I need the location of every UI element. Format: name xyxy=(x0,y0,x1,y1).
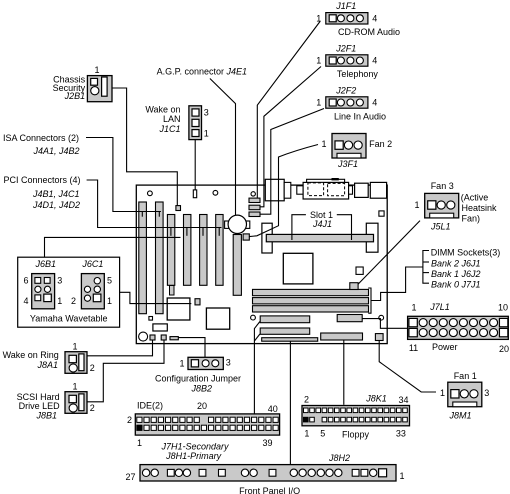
wire DIMM label bracket xyxy=(423,251,429,284)
fan 1 header on board xyxy=(375,334,383,341)
svg-text:LAN: LAN xyxy=(163,114,181,124)
component xyxy=(149,317,153,321)
connector J8B2 configuration jumper xyxy=(188,357,223,369)
wire AGP leader xyxy=(210,79,236,216)
svg-text:6: 6 xyxy=(23,275,28,285)
svg-text:J6B1: J6B1 xyxy=(34,259,56,269)
front panel header on board xyxy=(262,338,318,342)
svg-text:39: 39 xyxy=(262,438,272,448)
wire J6C1 leader xyxy=(104,292,191,303)
connector J6C1 xyxy=(81,274,104,309)
svg-text:Wake on Ring: Wake on Ring xyxy=(3,350,59,360)
svg-text:J8B2: J8B2 xyxy=(190,383,212,393)
component xyxy=(379,211,384,216)
svg-text:1: 1 xyxy=(107,296,112,306)
svg-text:1: 1 xyxy=(321,139,326,149)
svg-text:4: 4 xyxy=(372,56,377,66)
DIMM socket bank 0 J7J1 xyxy=(253,306,369,312)
svg-text:J4B1, J4C1: J4B1, J4C1 xyxy=(32,189,80,199)
ISA slot J4B2 xyxy=(156,202,164,314)
svg-text:1: 1 xyxy=(57,296,62,306)
svg-text:J8H1-Primary: J8H1-Primary xyxy=(165,451,222,461)
svg-text:33: 33 xyxy=(396,428,406,438)
back panel connector xyxy=(297,186,303,194)
telephony header on board xyxy=(249,205,260,210)
IDE secondary header on board xyxy=(260,316,310,323)
svg-text:J4A1, J4B2: J4A1, J4B2 xyxy=(33,146,80,156)
wire DIMM label connector xyxy=(371,267,423,301)
back panel connector xyxy=(284,182,291,198)
DIMM socket bank 2 J6J1 xyxy=(253,289,369,295)
wire fan 3 leader xyxy=(358,221,420,285)
speaker xyxy=(139,332,148,341)
svg-text:PCI Connectors (4): PCI Connectors (4) xyxy=(4,175,81,185)
svg-text:Fan 1: Fan 1 xyxy=(454,371,477,381)
svg-text:27: 27 xyxy=(125,472,135,482)
svg-text:3: 3 xyxy=(484,388,489,398)
svg-text:1: 1 xyxy=(72,382,77,392)
svg-text:5: 5 xyxy=(320,428,325,438)
svg-text:2: 2 xyxy=(127,415,132,425)
svg-text:1: 1 xyxy=(94,65,99,75)
svg-text:Heatsink: Heatsink xyxy=(462,203,498,213)
wire IDE leader xyxy=(254,322,260,415)
svg-text:J8B1: J8B1 xyxy=(35,410,57,420)
component xyxy=(153,324,167,331)
svg-text:2: 2 xyxy=(71,296,76,306)
SCSI LED header on board xyxy=(161,335,166,340)
svg-text:J6C1: J6C1 xyxy=(81,259,103,269)
connector J5L1 Fan 3 xyxy=(425,193,459,218)
svg-text:Configuration Jumper: Configuration Jumper xyxy=(155,373,241,383)
connector J3F1 Fan 2 xyxy=(332,134,366,159)
battery xyxy=(225,221,229,228)
svg-text:3: 3 xyxy=(204,108,209,118)
svg-text:34: 34 xyxy=(398,395,408,405)
svg-text:CD-ROM Audio: CD-ROM Audio xyxy=(338,27,400,37)
svg-text:4: 4 xyxy=(372,98,377,108)
svg-text:IDE(2): IDE(2) xyxy=(137,400,163,410)
IDE primary header on board xyxy=(260,328,310,334)
svg-text:40: 40 xyxy=(268,404,278,414)
svg-text:3: 3 xyxy=(57,275,62,285)
connector J6B1 xyxy=(32,274,55,309)
connector J8B1 SCSI LED xyxy=(65,392,87,414)
connector J8A1 wake on ring xyxy=(65,352,87,374)
PCI slot J4D2 xyxy=(216,215,223,286)
svg-text:Power: Power xyxy=(432,342,458,352)
wire SCSI LED leader xyxy=(87,340,164,402)
wire chassis security leader xyxy=(112,88,177,206)
svg-text:J7H1-Secondary: J7H1-Secondary xyxy=(160,441,229,451)
wire floppy leader xyxy=(343,340,345,405)
svg-text:3: 3 xyxy=(226,357,231,367)
svg-text:J1F1: J1F1 xyxy=(335,1,356,11)
svg-text:20: 20 xyxy=(197,401,207,411)
svg-text:J1C1: J1C1 xyxy=(158,124,180,134)
svg-text:J5L1: J5L1 xyxy=(430,221,451,231)
mounting hole xyxy=(251,315,256,320)
svg-text:4: 4 xyxy=(372,13,377,23)
svg-text:1: 1 xyxy=(316,98,321,108)
power header on board xyxy=(337,315,362,322)
svg-text:J8A1: J8A1 xyxy=(36,360,58,370)
svg-text:20: 20 xyxy=(499,344,509,354)
CD-ROM audio header on board xyxy=(249,198,260,202)
svg-text:J3F1: J3F1 xyxy=(337,159,358,169)
ISA slot J4A1 xyxy=(139,202,147,314)
back panel game port connector xyxy=(370,182,386,198)
wire power leader xyxy=(362,319,407,329)
svg-text:11: 11 xyxy=(409,343,418,353)
Yamaha wavetable box xyxy=(18,257,120,327)
jumper block beside AGP xyxy=(243,234,249,240)
fan 3 header on board xyxy=(350,283,358,290)
svg-text:1: 1 xyxy=(179,359,184,369)
Slot 1 connector J4J1 xyxy=(266,234,373,241)
mounting hole xyxy=(379,315,384,320)
AGP slot J4E1 xyxy=(233,235,241,296)
svg-text:Fan 2: Fan 2 xyxy=(369,139,392,149)
svg-text:Bank 0 J7J1: Bank 0 J7J1 xyxy=(431,279,481,289)
back panel serial connector xyxy=(265,179,284,201)
floppy header on board xyxy=(321,333,363,340)
wire fan 1 leader xyxy=(379,341,436,393)
component xyxy=(195,299,200,305)
svg-text:Yamaha Wavetable: Yamaha Wavetable xyxy=(30,313,108,323)
Slot 1 label bracket xyxy=(292,215,306,240)
svg-text:ISA Connectors (2): ISA Connectors (2) xyxy=(3,133,79,143)
svg-text:J2F1: J2F1 xyxy=(335,43,356,53)
svg-text:1: 1 xyxy=(411,303,416,313)
wire fan 2 leader xyxy=(249,145,318,237)
svg-text:Fan 3: Fan 3 xyxy=(431,181,454,191)
back panel connector xyxy=(349,186,353,194)
mounting hole xyxy=(148,191,153,196)
line-in audio header on board xyxy=(249,212,260,217)
PCI slot J4C1 xyxy=(184,215,191,286)
configuration jumper on board xyxy=(170,337,178,340)
wire telephony leader xyxy=(260,67,321,207)
svg-text:J8H2: J8H2 xyxy=(328,453,350,463)
svg-text:J7L1: J7L1 xyxy=(429,302,450,312)
wire line-in audio leader xyxy=(260,109,324,215)
svg-text:1: 1 xyxy=(316,56,321,66)
svg-text:1: 1 xyxy=(304,428,309,438)
chassis security header on board xyxy=(176,206,181,211)
svg-text:A.G.P. connector J4E1: A.G.P. connector J4E1 xyxy=(157,67,247,77)
PCI slot J4B1 xyxy=(167,215,174,286)
wire PCI leader xyxy=(87,180,222,228)
svg-text:J2F2: J2F2 xyxy=(335,85,356,95)
svg-text:J8K1: J8K1 xyxy=(365,394,387,404)
chip xyxy=(283,253,313,284)
wire wake-on-LAN leader xyxy=(194,140,196,190)
wire Yamaha wavetable leader xyxy=(45,237,181,257)
svg-text:1: 1 xyxy=(414,200,419,210)
svg-text:(Active: (Active xyxy=(461,193,489,203)
connector J2B1 chassis security xyxy=(87,76,112,102)
svg-text:1: 1 xyxy=(137,438,142,448)
svg-text:1: 1 xyxy=(204,129,209,139)
back panel PS/2 and USB block xyxy=(307,179,345,184)
wake-on-LAN header J1C1 on board xyxy=(193,190,196,198)
PCI slot J4D1 xyxy=(200,215,207,286)
wake-on-ring header on board xyxy=(150,335,155,340)
svg-text:5: 5 xyxy=(107,275,112,285)
connector J8M1 Fan 1 xyxy=(448,382,482,407)
mounting hole xyxy=(251,192,255,196)
wire wake-on-ring leader xyxy=(87,340,153,356)
svg-text:J4J1: J4J1 xyxy=(312,219,332,229)
wire configuration jumper leader xyxy=(178,338,205,358)
svg-text:J8M1: J8M1 xyxy=(449,411,472,421)
wire front panel leader xyxy=(289,341,291,464)
svg-text:Telephony: Telephony xyxy=(337,69,379,79)
Slot 1 retention bracket right xyxy=(366,223,378,252)
svg-text:10: 10 xyxy=(498,303,508,313)
wire CD-ROM audio leader xyxy=(257,22,320,199)
svg-text:1: 1 xyxy=(316,13,321,23)
back panel parallel connector xyxy=(355,183,369,197)
mounting hole xyxy=(213,190,218,195)
svg-text:2: 2 xyxy=(304,395,309,405)
svg-text:1: 1 xyxy=(440,388,445,398)
svg-text:2: 2 xyxy=(90,363,95,373)
svg-text:2: 2 xyxy=(90,403,95,413)
USB ports dashed xyxy=(328,183,345,195)
wire DIMM bracket on board xyxy=(368,288,371,313)
wire ISA leader xyxy=(86,138,161,212)
component xyxy=(356,267,363,274)
Slot 1 retention bracket left xyxy=(262,223,272,253)
svg-text:Bank 1 J6J2: Bank 1 J6J2 xyxy=(431,269,481,279)
svg-text:Front Panel I/O: Front Panel I/O xyxy=(239,486,300,494)
chip near wavetable header xyxy=(167,298,190,320)
DIMM socket bank 1 J6J2 xyxy=(253,298,369,304)
svg-text:Fan): Fan) xyxy=(462,214,481,224)
connector J1C1 wake on LAN xyxy=(189,106,202,140)
PS/2 ports dashed xyxy=(308,183,324,196)
svg-text:Line In Audio: Line In Audio xyxy=(334,111,386,121)
svg-text:J4D1, J4D2: J4D1, J4D2 xyxy=(32,200,80,210)
svg-text:Bank 2 J6J1: Bank 2 J6J1 xyxy=(431,258,481,268)
motherboard outline xyxy=(136,185,387,344)
svg-text:Floppy: Floppy xyxy=(342,430,370,440)
chip xyxy=(206,308,229,329)
svg-text:DIMM Sockets(3): DIMM Sockets(3) xyxy=(431,248,501,258)
svg-text:1: 1 xyxy=(72,342,77,352)
svg-text:1: 1 xyxy=(400,471,405,481)
svg-text:J2B1: J2B1 xyxy=(64,91,86,101)
svg-text:4: 4 xyxy=(23,296,28,306)
header below PCI slot 1 xyxy=(170,286,175,296)
